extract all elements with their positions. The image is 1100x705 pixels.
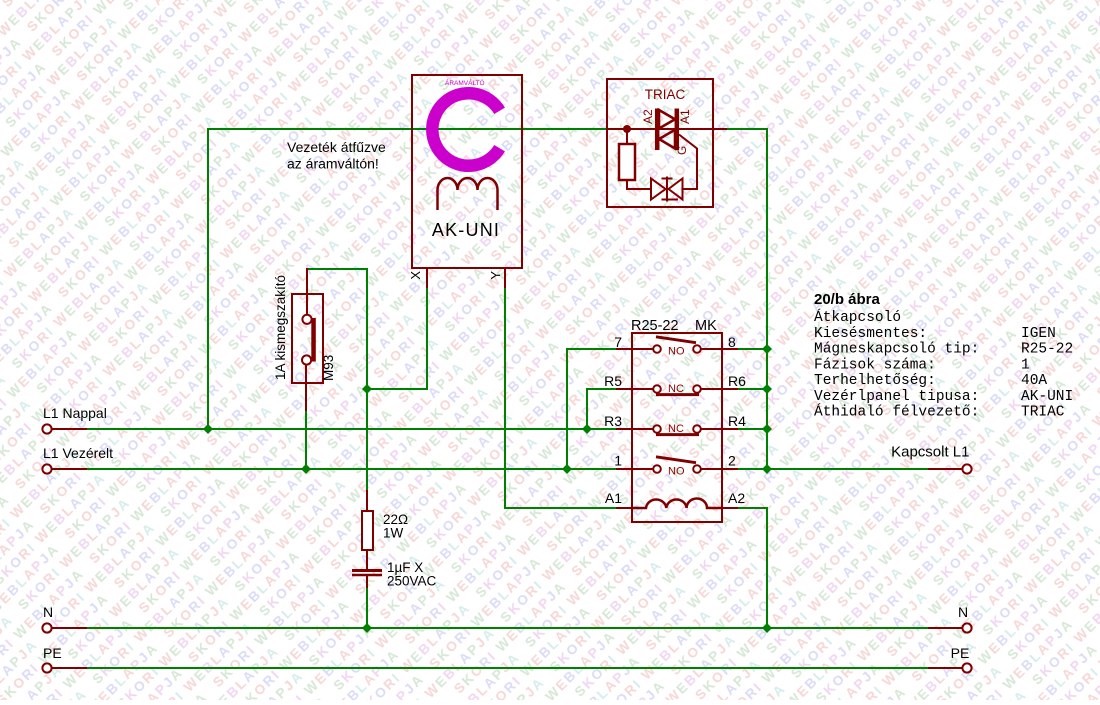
wire PE line <box>87 667 928 669</box>
svg-text:A2: A2 <box>728 490 745 506</box>
resistor R (triac gate) <box>619 144 635 180</box>
stub fuse top <box>306 268 308 294</box>
fuse box outline <box>292 294 323 383</box>
wire resistor to capacitor <box>366 550 368 570</box>
junction fuse / L1 Vezerelt <box>301 464 311 474</box>
wire X branch horizontal <box>366 388 428 390</box>
junction R4 / right rail <box>762 424 772 434</box>
wire right rail x=768 <box>766 128 768 469</box>
wire pin8 right <box>737 348 768 350</box>
junction R6 / right rail <box>762 384 772 394</box>
svg-text:L1 Nappal: L1 Nappal <box>43 405 107 421</box>
stub X pin <box>426 268 428 288</box>
wire pin7 vertical <box>566 348 568 469</box>
svg-text:1: 1 <box>614 453 622 469</box>
wire left rail x=208 <box>207 128 209 429</box>
stub relay pin 7 <box>616 348 632 350</box>
stub relay pin R6 <box>722 388 738 390</box>
stub PE right terminal <box>928 667 962 669</box>
contact 1-2 NO <box>653 465 661 473</box>
fuse contact bottom circle <box>302 355 311 364</box>
stub relay pin 8 <box>722 348 738 350</box>
wire resistor to diac <box>627 180 652 189</box>
wire X branch vertical <box>426 287 428 389</box>
relay coil <box>632 499 722 509</box>
svg-text:AK-UNI: AK-UNI <box>1021 389 1073 405</box>
svg-text:R5: R5 <box>604 373 622 389</box>
contact 7-8 wires <box>632 348 722 350</box>
AK-UNI box outline <box>412 75 522 268</box>
wire L1 Nappal <box>87 428 617 430</box>
current transformer C (magenta) <box>432 93 499 166</box>
contact R5-R6 wires <box>632 388 722 390</box>
diac D1 <box>651 177 683 202</box>
junction pin2 / Kapcsolt L1 <box>762 464 772 474</box>
junction X branch / snubber <box>362 384 372 394</box>
svg-text:8: 8 <box>728 334 736 350</box>
fuse contact top circle <box>302 315 311 324</box>
svg-text:Vezeték átfűzve: Vezeték átfűzve <box>287 139 386 155</box>
svg-text:2: 2 <box>728 453 736 469</box>
svg-text:NO: NO <box>668 466 685 478</box>
svg-text:AK-UNI: AK-UNI <box>432 220 500 240</box>
svg-text:Fázisok száma:: Fázisok száma: <box>814 358 936 374</box>
junction pin7 / L1 Vezerelt <box>562 464 572 474</box>
junction L1 Nappal / left rail <box>203 424 213 434</box>
svg-text:A1: A1 <box>605 490 622 506</box>
svg-text:Áthidaló félvezető:: Áthidaló félvezető: <box>814 403 979 421</box>
wire capacitor bottom lead <box>366 576 368 588</box>
svg-text:A1: A1 <box>678 109 692 124</box>
svg-text:1A kismegszakító: 1A kismegszakító <box>273 275 288 380</box>
svg-text:PE: PE <box>43 645 62 661</box>
svg-text:Terhelhetőség:: Terhelhetőség: <box>814 373 936 389</box>
contact R5-R6 NC <box>653 385 661 393</box>
contact R3-R4 wires <box>632 428 722 430</box>
wire CT main horizontal top <box>207 128 608 130</box>
svg-text:IGEN: IGEN <box>1021 326 1056 342</box>
stub triac out right <box>712 128 727 130</box>
AK-UNI coil L1 <box>438 178 498 210</box>
wire triac out to right rail <box>727 128 768 130</box>
relay box outline <box>632 333 722 522</box>
svg-text:NC: NC <box>668 423 684 435</box>
wire inside fuse top <box>306 294 308 315</box>
svg-text:NC: NC <box>668 383 684 395</box>
junction pin8 / right rail <box>762 344 772 354</box>
wire R4 right <box>737 428 768 430</box>
terminal PE left <box>42 663 51 672</box>
svg-text:1W: 1W <box>383 526 404 541</box>
junction A2 / N <box>762 623 772 633</box>
svg-text:az áramváltón!: az áramváltón! <box>287 156 379 172</box>
wire N line <box>87 627 928 629</box>
svg-text:Y: Y <box>488 271 503 280</box>
stub relay pin R4 <box>722 428 738 430</box>
svg-text:MK: MK <box>695 318 717 334</box>
wire R6 right <box>737 388 768 390</box>
svg-text:Mágneskapcsoló tip:: Mágneskapcsoló tip: <box>814 342 979 358</box>
wire A2 vertical to N <box>766 507 768 628</box>
svg-text:R4: R4 <box>728 413 746 429</box>
wire fuse top corner <box>306 268 368 270</box>
wire R5 horizontal <box>587 388 617 390</box>
stub relay pin A1 <box>616 507 632 509</box>
svg-text:PE: PE <box>951 645 970 661</box>
resistor R1 22 Ohm <box>362 511 373 550</box>
svg-text:NO: NO <box>668 346 685 358</box>
svg-text:20/b ábra: 20/b ábra <box>814 291 881 308</box>
svg-text:M93: M93 <box>321 355 336 381</box>
stub relay pin 1 <box>616 468 632 470</box>
svg-text:R6: R6 <box>728 373 746 389</box>
wire A2 right <box>737 507 768 509</box>
contact R3-R4 NC <box>653 425 661 433</box>
wire Y branch to A1 <box>504 507 617 509</box>
stub fuse bottom <box>305 384 307 411</box>
junction snubber / N <box>362 623 372 633</box>
svg-text:N: N <box>958 604 968 620</box>
svg-text:R3: R3 <box>604 413 622 429</box>
svg-text:Vezérlpanel tipusa:: Vezérlpanel tipusa: <box>814 389 979 405</box>
wire diac to gate <box>679 135 697 190</box>
svg-text:Átkapcsoló: Átkapcsoló <box>814 308 901 326</box>
svg-text:X: X <box>408 271 423 280</box>
stub relay pin R5 <box>616 388 632 390</box>
stub relay pin A2 <box>722 507 738 509</box>
svg-text:1: 1 <box>1021 358 1030 374</box>
svg-text:R25-22: R25-22 <box>631 318 679 334</box>
junction R5 / L1 Nappal <box>582 424 592 434</box>
svg-text:TRIAC: TRIAC <box>645 87 686 102</box>
svg-text:A2: A2 <box>641 109 655 124</box>
contact 1-2 wires <box>632 468 722 470</box>
wire snubber vertical x=367 <box>366 268 368 490</box>
svg-text:Kiesésmentes:: Kiesésmentes: <box>814 326 927 342</box>
contact 7-8 NO <box>653 345 661 353</box>
svg-text:Kapcsolt L1: Kapcsolt L1 <box>891 444 969 461</box>
capacitor C1 plates <box>352 569 382 572</box>
wire pin7 horizontal <box>567 348 617 350</box>
svg-text:40A: 40A <box>1021 373 1047 389</box>
stub L1 Nappal terminal <box>52 428 87 430</box>
svg-text:TRIAC: TRIAC <box>1021 405 1065 421</box>
stub Kapcsolt L1 terminal <box>928 468 962 470</box>
fuse bar <box>311 318 316 362</box>
wire green to resistor (maroon lead) <box>366 490 368 511</box>
stub PE left terminal <box>52 667 87 669</box>
wire R5 vertical <box>586 388 588 429</box>
svg-text:L1 Vezérelt: L1 Vezérelt <box>43 445 113 461</box>
terminal L1 Vezerelt <box>42 464 51 473</box>
terminal N left <box>42 623 51 632</box>
stub relay pin R3 <box>616 428 632 430</box>
wire L1 Vezerelt <box>87 468 617 470</box>
stub L1 Vezerelt terminal <box>52 468 87 470</box>
terminal Kapcsolt L1 <box>962 464 971 473</box>
wire pin2 right <box>737 468 768 470</box>
terminal L1 Nappal <box>42 424 51 433</box>
terminal PE right <box>962 663 971 672</box>
stub N right terminal <box>928 627 962 629</box>
wire Y branch vertical <box>504 287 506 508</box>
wire below capacitor to N <box>366 587 368 628</box>
svg-text:ÁRAMVÁLTÓ: ÁRAMVÁLTÓ <box>445 78 485 87</box>
wire through triac (maroon) <box>607 128 713 130</box>
svg-text:R25-22: R25-22 <box>1021 342 1073 358</box>
node junction dot <box>623 125 631 133</box>
terminal N right <box>962 623 971 632</box>
stub Y pin <box>504 268 506 288</box>
wire fuse bottom to L1 Vezerelt <box>305 410 307 469</box>
stub N left terminal <box>52 627 87 629</box>
svg-text:7: 7 <box>614 334 622 350</box>
svg-text:G: G <box>675 146 689 155</box>
wire junction to resistor <box>626 129 628 144</box>
wire Kapcsolt L1 <box>767 468 928 470</box>
TRIAC box outline <box>607 79 713 207</box>
svg-text:N: N <box>43 604 53 620</box>
svg-text:250VAC: 250VAC <box>387 574 437 589</box>
triac T1 symbol <box>657 109 677 151</box>
stub relay pin 2 <box>722 468 738 470</box>
wire inside fuse bottom <box>305 364 307 384</box>
